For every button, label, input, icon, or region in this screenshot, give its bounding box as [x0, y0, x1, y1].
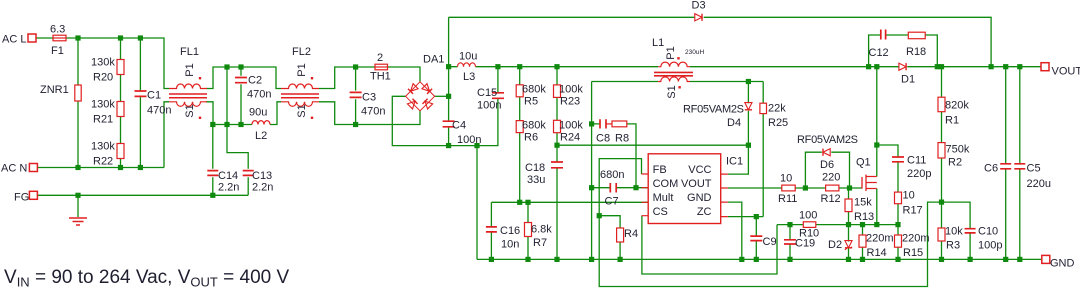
svg-text:R11: R11 [778, 193, 797, 205]
svg-text:CS: CS [653, 206, 668, 218]
svg-text:C1: C1 [147, 90, 161, 102]
svg-text:FL2: FL2 [292, 46, 311, 58]
svg-text:S1: S1 [666, 85, 678, 98]
svg-text:R21: R21 [93, 114, 113, 126]
svg-text:S1: S1 [296, 104, 308, 117]
svg-text:P1: P1 [665, 46, 677, 59]
svg-text:C3: C3 [362, 92, 376, 104]
svg-text:VCC: VCC [688, 164, 711, 176]
svg-text:100n: 100n [457, 134, 481, 146]
svg-text:680k: 680k [522, 84, 546, 96]
svg-text:470n: 470n [361, 106, 385, 118]
svg-text:750k: 750k [946, 144, 970, 156]
svg-text:AC L: AC L [2, 34, 26, 46]
svg-text:R6: R6 [524, 132, 538, 144]
svg-text:C15: C15 [477, 87, 497, 99]
svg-text:100: 100 [799, 210, 817, 222]
svg-text:FB: FB [653, 164, 667, 176]
svg-text:R14: R14 [867, 247, 887, 259]
svg-text:10k: 10k [945, 226, 963, 238]
svg-text:GND: GND [687, 192, 712, 204]
svg-text:C19: C19 [795, 238, 815, 250]
svg-text:GND: GND [1050, 258, 1075, 270]
svg-text:COM: COM [653, 178, 679, 190]
svg-text:ZNR1: ZNR1 [40, 84, 69, 96]
svg-text:VIN = 90 to 264 Vac, VOUT = 40: VIN = 90 to 264 Vac, VOUT = 400 V [4, 267, 290, 289]
svg-text:D2: D2 [828, 239, 842, 251]
svg-text:P1: P1 [184, 63, 196, 76]
svg-text:6.8k: 6.8k [531, 224, 552, 236]
svg-text:130k: 130k [91, 141, 115, 153]
svg-text:IC1: IC1 [726, 156, 743, 168]
svg-text:Mult: Mult [653, 192, 674, 204]
svg-text:R25: R25 [768, 117, 788, 129]
svg-text:TH1: TH1 [370, 71, 391, 83]
svg-text:2.2n: 2.2n [218, 182, 239, 194]
svg-text:R20: R20 [93, 72, 113, 84]
svg-text:FL1: FL1 [180, 46, 199, 58]
svg-text:C13: C13 [252, 170, 272, 182]
svg-text:220: 220 [822, 172, 840, 184]
svg-text:R23: R23 [560, 96, 580, 108]
svg-text:C11: C11 [907, 155, 926, 167]
svg-text:R5: R5 [524, 96, 538, 108]
svg-text:22k: 22k [768, 103, 786, 115]
svg-text:680k: 680k [522, 120, 546, 132]
svg-text:C12: C12 [869, 47, 889, 59]
svg-text:6.3: 6.3 [50, 24, 65, 36]
svg-text:C7: C7 [605, 196, 619, 208]
svg-text:R12: R12 [821, 193, 841, 205]
svg-text:C8: C8 [596, 133, 610, 145]
svg-text:R8: R8 [615, 133, 629, 145]
svg-text:D6: D6 [820, 159, 834, 171]
svg-text:C14: C14 [218, 170, 238, 182]
svg-text:R13: R13 [854, 211, 874, 223]
svg-text:R17: R17 [903, 205, 923, 217]
svg-text:680n: 680n [600, 169, 624, 181]
svg-text:10: 10 [780, 173, 792, 185]
svg-text:R7: R7 [533, 237, 547, 249]
svg-text:ZC: ZC [697, 206, 712, 218]
svg-text:C10: C10 [978, 226, 998, 238]
svg-text:100n: 100n [477, 100, 501, 112]
svg-text:220p: 220p [907, 168, 931, 180]
svg-text:470n: 470n [247, 89, 271, 101]
svg-text:R1: R1 [945, 115, 959, 127]
svg-text:P1: P1 [296, 63, 308, 76]
svg-text:220u: 220u [1027, 178, 1051, 190]
svg-text:R3: R3 [946, 240, 960, 252]
svg-text:AC N: AC N [1, 163, 27, 175]
svg-text:10u: 10u [459, 51, 477, 63]
svg-text:100p: 100p [978, 240, 1002, 252]
svg-text:R15: R15 [903, 247, 923, 259]
svg-text:10: 10 [903, 190, 915, 202]
svg-text:820k: 820k [945, 100, 969, 112]
svg-text:2.2n: 2.2n [252, 182, 273, 194]
svg-text:L2: L2 [255, 130, 267, 142]
svg-text:C5: C5 [1027, 163, 1041, 175]
svg-text:L3: L3 [463, 71, 475, 83]
svg-text:C18: C18 [525, 162, 545, 174]
svg-text:FG: FG [14, 192, 29, 204]
svg-text:L1: L1 [652, 37, 664, 49]
svg-text:R4: R4 [624, 228, 638, 240]
svg-text:R24: R24 [560, 132, 580, 144]
svg-text:33u: 33u [527, 174, 545, 186]
svg-text:470n: 470n [147, 105, 171, 117]
svg-text:DA1: DA1 [423, 54, 444, 66]
svg-text:130k: 130k [91, 99, 115, 111]
svg-text:F1: F1 [51, 45, 64, 57]
svg-text:C4: C4 [452, 120, 466, 132]
svg-text:130k: 130k [91, 57, 115, 69]
svg-text:D4: D4 [727, 117, 741, 129]
svg-text:100k: 100k [559, 84, 583, 96]
svg-text:220m: 220m [902, 233, 930, 245]
svg-text:C2: C2 [248, 75, 262, 87]
svg-text:10n: 10n [501, 239, 519, 251]
svg-text:90u: 90u [249, 107, 267, 119]
svg-text:100k: 100k [559, 120, 583, 132]
svg-text:C6: C6 [984, 163, 998, 175]
svg-text:15k: 15k [854, 197, 872, 209]
svg-text:R22: R22 [93, 156, 113, 168]
svg-text:VOUT: VOUT [1052, 66, 1080, 78]
svg-text:Q1: Q1 [856, 157, 871, 169]
svg-text:230uH: 230uH [685, 49, 704, 56]
svg-text:C9: C9 [763, 236, 777, 248]
svg-text:RF05VAM2S: RF05VAM2S [683, 104, 744, 116]
svg-text:2: 2 [377, 52, 383, 64]
svg-text:R18: R18 [906, 46, 926, 58]
svg-text:VOUT: VOUT [681, 178, 712, 190]
svg-text:D1: D1 [901, 74, 915, 86]
svg-text:D3: D3 [692, 0, 706, 12]
svg-text:R2: R2 [948, 157, 962, 169]
svg-text:RF05VAM2S: RF05VAM2S [797, 134, 858, 146]
svg-text:C16: C16 [500, 225, 520, 237]
svg-text:S1: S1 [184, 104, 196, 117]
svg-text:220m: 220m [866, 233, 894, 245]
